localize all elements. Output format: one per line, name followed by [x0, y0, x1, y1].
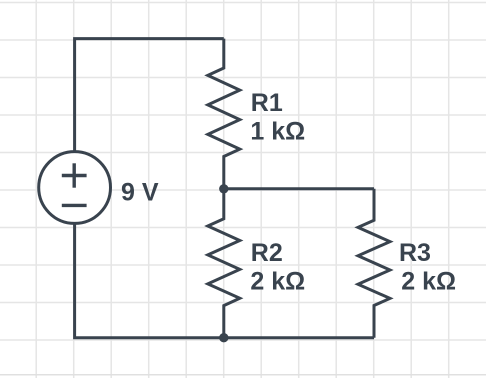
svg-text:2 kΩ: 2 kΩ [401, 268, 456, 296]
wire: V1 - terminal down to bottom-left corner and to junction at R2 bottom [75, 223, 224, 337]
svg-text:R1: R1 [251, 89, 283, 117]
svg-text:R3: R3 [399, 239, 431, 267]
resistor R3 [358, 189, 390, 338]
svg-text:2 kΩ: 2 kΩ [250, 268, 305, 296]
voltage source V1 (9 V DC) [39, 152, 111, 224]
junction node at bottom wire [219, 333, 228, 342]
svg-text:1 kΩ: 1 kΩ [250, 118, 305, 146]
resistor R2 [208, 189, 240, 338]
svg-text:R2: R2 [251, 239, 283, 267]
wire: V1 + terminal up and across to R1 top [75, 39, 224, 152]
wire: bottom segment from R2 junction to R3 bottom [224, 336, 374, 339]
junction node at R1/R2/middle wire [219, 184, 228, 193]
svg-text:9 V: 9 V [121, 179, 159, 207]
resistor R1 [208, 39, 240, 189]
wire: middle segment from node to R3 top [224, 187, 374, 190]
